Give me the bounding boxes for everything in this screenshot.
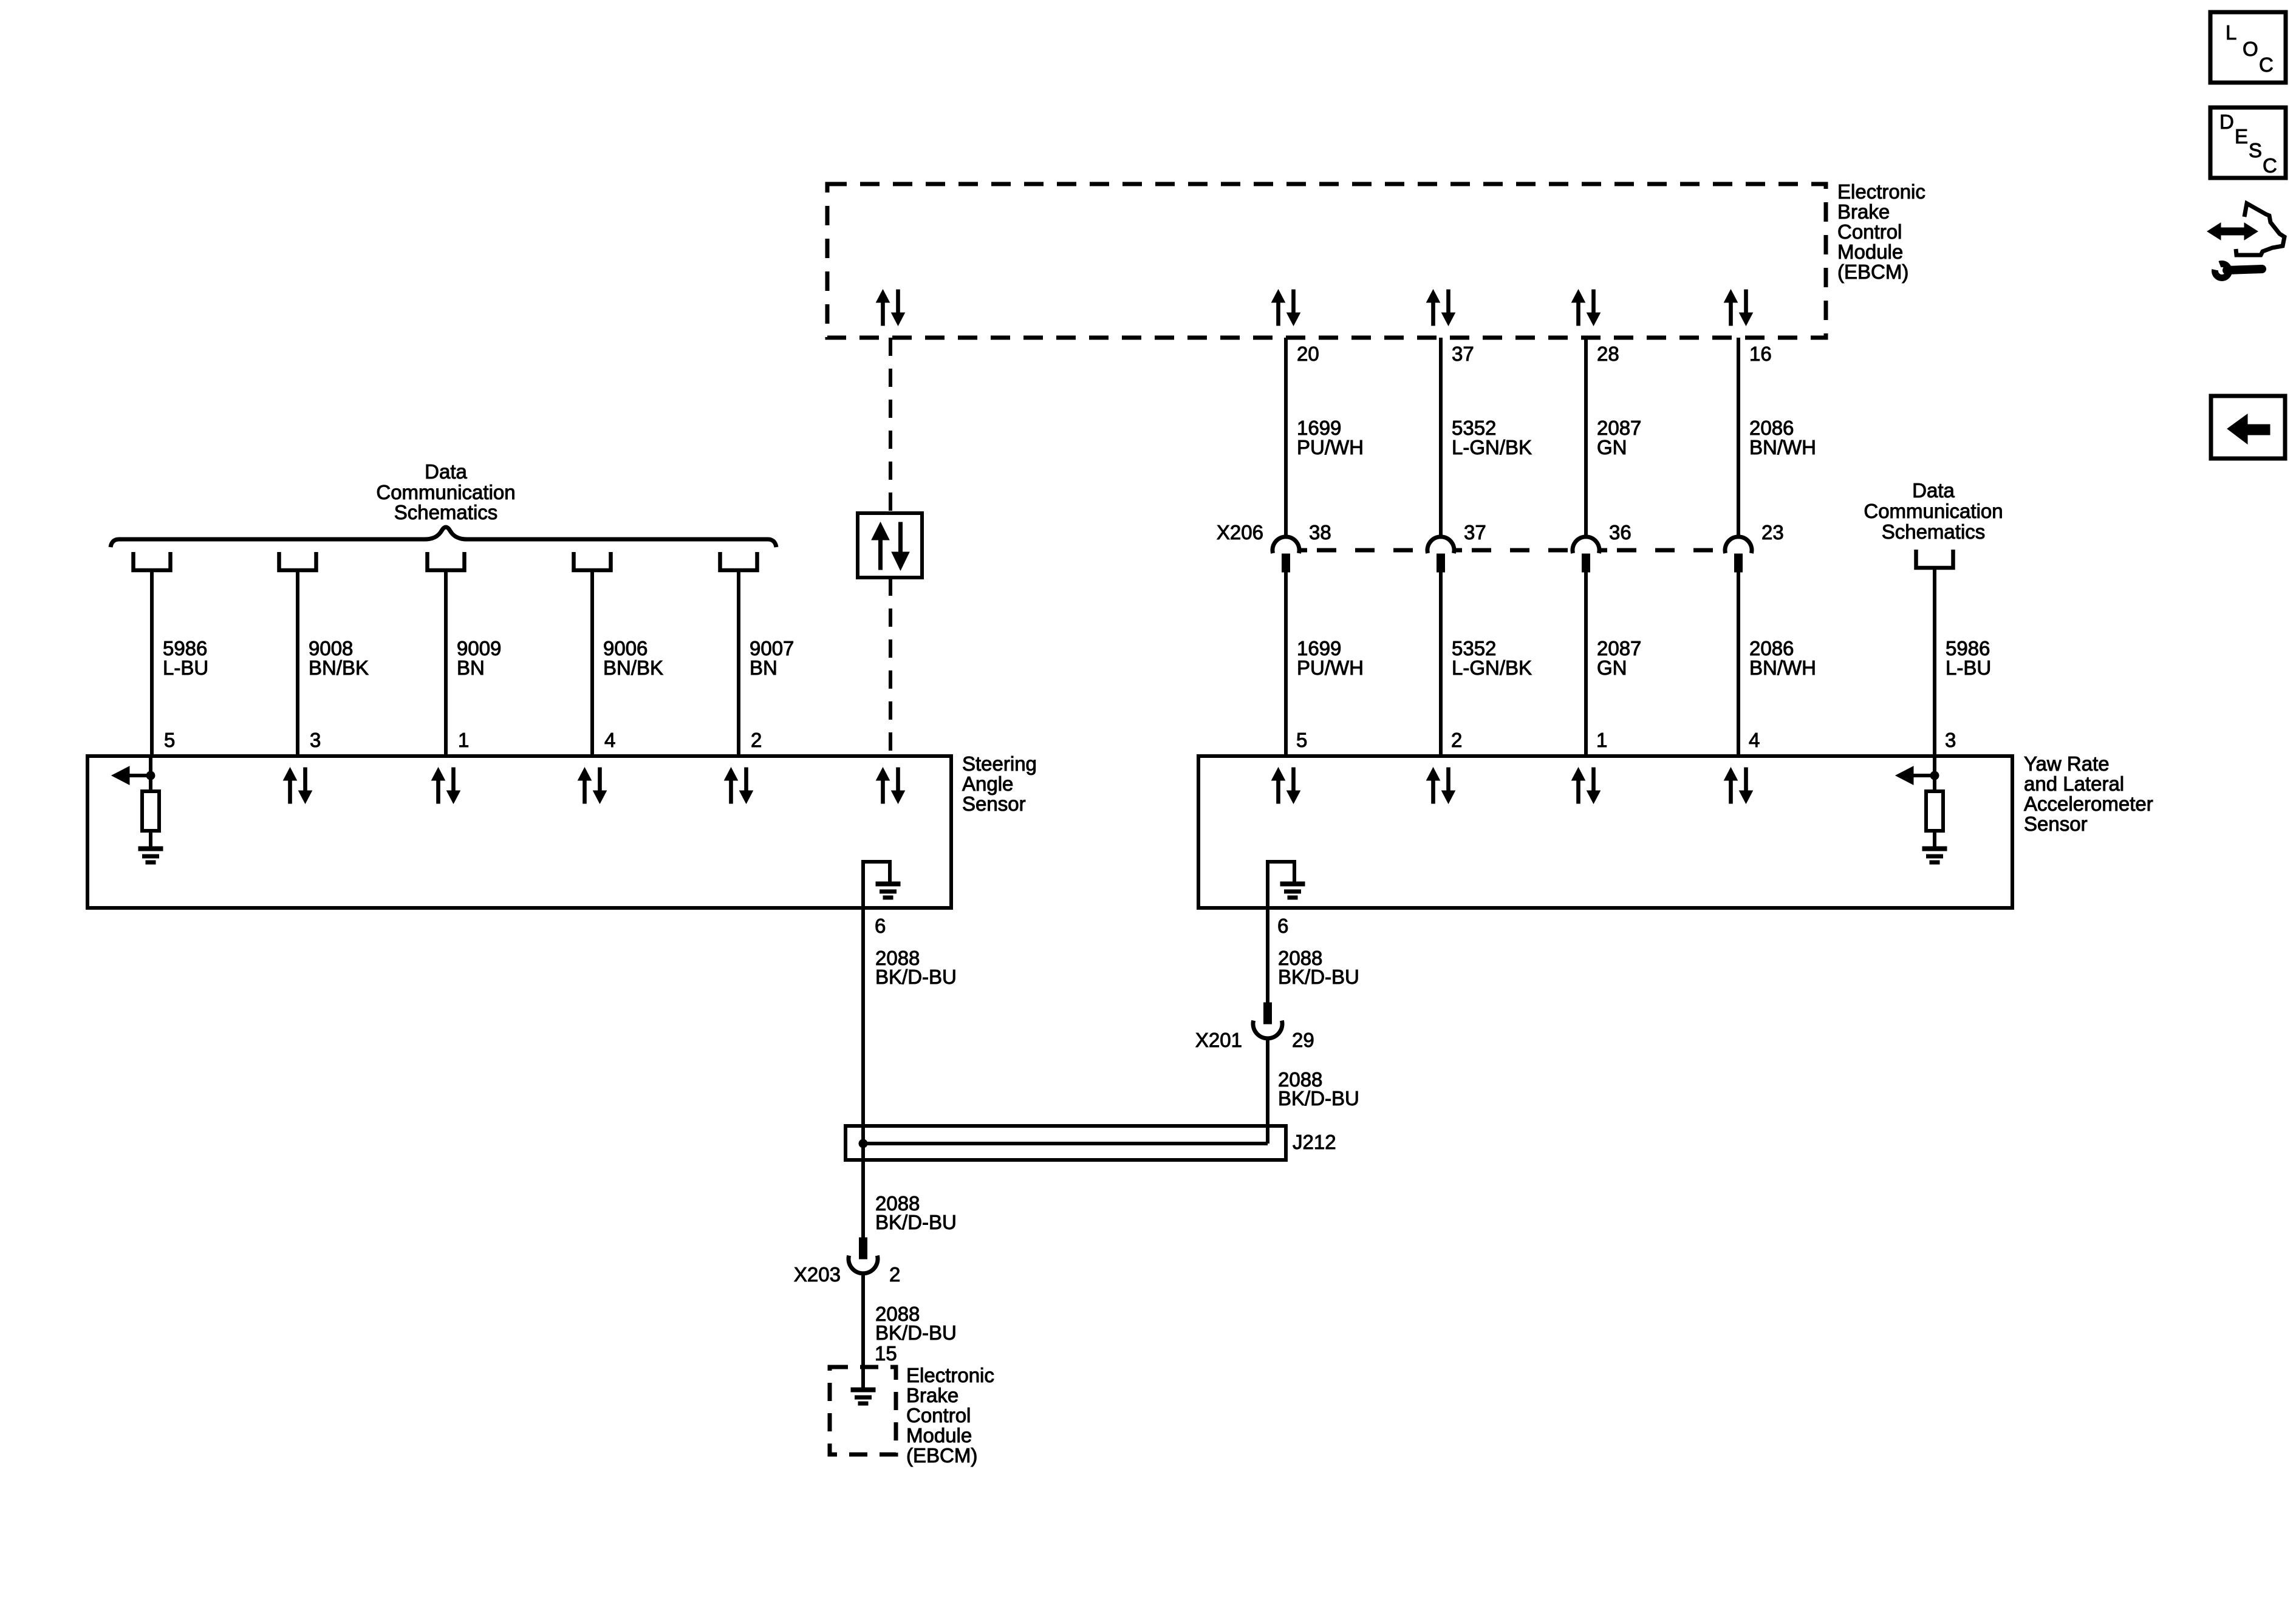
svg-text:L: L: [2226, 21, 2236, 44]
svg-text:23: 23: [1761, 521, 1784, 544]
svg-text:PU/WH: PU/WH: [1297, 656, 1364, 679]
svg-text:BN/BK: BN/BK: [603, 656, 663, 679]
svg-text:BK/D-BU: BK/D-BU: [875, 1321, 957, 1344]
svg-text:and Lateral: and Lateral: [2024, 772, 2124, 795]
svg-text:Sensor: Sensor: [962, 793, 1026, 815]
svg-text:X201: X201: [1195, 1029, 1242, 1051]
svg-text:Brake: Brake: [1837, 200, 1890, 223]
svg-text:4: 4: [604, 729, 615, 751]
svg-text:BN/WH: BN/WH: [1749, 656, 1816, 679]
svg-text:Module: Module: [906, 1424, 972, 1447]
svg-text:C: C: [2259, 53, 2274, 76]
svg-text:GN: GN: [1597, 656, 1627, 679]
svg-text:D: D: [2219, 111, 2234, 133]
svg-text:S: S: [2249, 139, 2262, 162]
svg-text:J212: J212: [1293, 1131, 1336, 1153]
svg-text:Schematics: Schematics: [1882, 520, 1986, 543]
svg-text:15: 15: [875, 1342, 897, 1365]
svg-text:PU/WH: PU/WH: [1297, 436, 1364, 459]
svg-text:GN: GN: [1597, 436, 1627, 459]
svg-text:X203: X203: [794, 1263, 841, 1286]
svg-text:38: 38: [1309, 521, 1331, 544]
svg-text:Data: Data: [1912, 479, 1955, 502]
svg-text:Angle: Angle: [962, 772, 1013, 795]
svg-text:Control: Control: [1837, 220, 1902, 243]
svg-text:36: 36: [1609, 521, 1631, 544]
svg-text:(EBCM): (EBCM): [906, 1444, 977, 1467]
svg-text:Schematics: Schematics: [394, 501, 498, 523]
svg-text:C: C: [2263, 154, 2277, 177]
svg-text:L-BU: L-BU: [163, 656, 208, 679]
svg-text:Control: Control: [906, 1404, 971, 1427]
svg-text:Electronic: Electronic: [906, 1364, 994, 1386]
svg-text:Yaw Rate: Yaw Rate: [2024, 752, 2110, 775]
svg-text:5: 5: [164, 729, 175, 751]
svg-text:BN/WH: BN/WH: [1749, 436, 1816, 459]
svg-text:Data: Data: [425, 460, 467, 483]
svg-text:BN: BN: [750, 656, 777, 679]
svg-text:BK/D-BU: BK/D-BU: [1278, 966, 1359, 988]
svg-text:BK/D-BU: BK/D-BU: [1278, 1087, 1359, 1110]
svg-text:BK/D-BU: BK/D-BU: [875, 1211, 957, 1233]
svg-text:E: E: [2235, 125, 2248, 148]
svg-text:5: 5: [1296, 729, 1307, 751]
svg-text:Electronic: Electronic: [1837, 180, 1925, 203]
svg-text:O: O: [2243, 38, 2258, 60]
svg-text:16: 16: [1749, 343, 1772, 365]
svg-text:28: 28: [1597, 343, 1619, 365]
svg-text:Communication: Communication: [376, 481, 515, 503]
svg-text:Sensor: Sensor: [2024, 813, 2088, 835]
svg-text:L-BU: L-BU: [1946, 656, 1991, 679]
svg-text:X206: X206: [1217, 521, 1263, 544]
svg-text:6: 6: [1277, 915, 1288, 937]
svg-text:BK/D-BU: BK/D-BU: [875, 966, 957, 988]
svg-text:BN/BK: BN/BK: [309, 656, 369, 679]
svg-text:(EBCM): (EBCM): [1837, 261, 1908, 283]
svg-text:2: 2: [751, 729, 762, 751]
svg-text:Communication: Communication: [1864, 500, 2003, 522]
svg-text:37: 37: [1452, 343, 1474, 365]
svg-text:6: 6: [875, 915, 886, 937]
svg-text:Accelerometer: Accelerometer: [2024, 793, 2153, 815]
svg-text:37: 37: [1464, 521, 1486, 544]
svg-text:20: 20: [1297, 343, 1319, 365]
svg-text:29: 29: [1292, 1029, 1314, 1051]
svg-text:L-GN/BK: L-GN/BK: [1452, 436, 1532, 459]
svg-text:1: 1: [458, 729, 469, 751]
svg-text:3: 3: [1945, 729, 1956, 751]
svg-text:Steering: Steering: [962, 752, 1037, 775]
svg-text:2: 2: [1451, 729, 1462, 751]
svg-text:Module: Module: [1837, 240, 1903, 263]
svg-text:1: 1: [1596, 729, 1607, 751]
svg-text:Brake: Brake: [906, 1384, 958, 1406]
svg-text:4: 4: [1749, 729, 1760, 751]
svg-text:3: 3: [310, 729, 321, 751]
svg-text:L-GN/BK: L-GN/BK: [1452, 656, 1532, 679]
svg-text:BN: BN: [457, 656, 485, 679]
svg-text:2: 2: [889, 1263, 900, 1286]
